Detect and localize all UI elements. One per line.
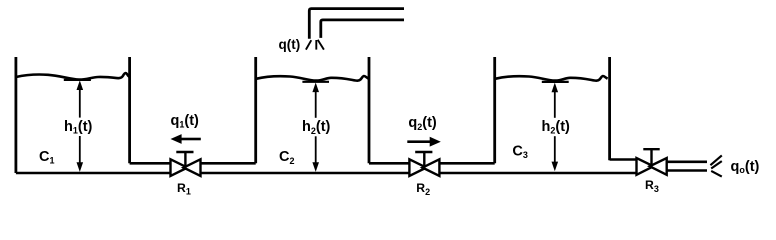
svg-text:q2(t): q2(t) — [408, 115, 437, 132]
svg-text:h2(t): h2(t) — [302, 119, 331, 136]
label R2 — [416, 181, 430, 197]
outlet pipe lower line — [667, 169, 707, 172]
label R3 — [645, 178, 659, 194]
h3 level arrow (double-headed) — [554, 91, 556, 164]
h1 level arrow (double-headed) — [79, 89, 81, 165]
level dash tank1 — [64, 79, 91, 81]
water surface tank2 — [256, 76, 369, 81]
tank C1 right wall — [128, 57, 131, 163]
valve R1 right triangle — [184, 159, 201, 176]
label q2(t) — [408, 115, 437, 132]
valve R3 right triangle — [650, 158, 667, 175]
channel upper line tank1-valve R1 — [130, 162, 171, 165]
inflow pipe inner wall — [321, 20, 404, 38]
svg-text:qo(t): qo(t) — [731, 159, 760, 175]
label C1 — [39, 149, 55, 166]
valve R1 top bar — [176, 151, 193, 153]
valve R2 right triangle — [423, 159, 440, 176]
channel upper line valve R2-tank3 — [439, 162, 494, 165]
channel upper line valve R1-tank2 — [201, 162, 256, 165]
water surface tank1 — [16, 73, 129, 80]
label h2(t) tank3 — [542, 119, 571, 136]
outlet pipe upper line — [667, 161, 707, 164]
label R1 — [177, 181, 191, 197]
label q1(t) — [171, 113, 200, 130]
valve R2 stem — [423, 152, 425, 168]
tank C3 left wall — [493, 57, 496, 163]
label h2(t) tank2 — [302, 119, 331, 136]
svg-text:h2(t): h2(t) — [542, 119, 571, 136]
valve R2 left triangle — [409, 159, 426, 176]
water surface tank3 — [495, 76, 608, 81]
valve R1 stem — [184, 152, 186, 168]
level dash tank2 — [302, 81, 329, 83]
label q(t) — [279, 37, 301, 52]
svg-text:q1(t): q1(t) — [171, 113, 200, 130]
outlet flow spray marks — [710, 155, 721, 176]
svg-text:h1(t): h1(t) — [64, 119, 93, 136]
tank C2 left wall — [254, 57, 257, 163]
valve R3 top bar — [643, 148, 659, 150]
bottom pipe line — [16, 172, 637, 175]
inlet flow spray marks — [306, 40, 324, 50]
label h1(t) — [64, 119, 93, 136]
channel upper line tank3-valve R3 — [610, 158, 637, 161]
h2 level arrow (double-headed) — [315, 91, 317, 165]
valve R3 left triangle — [637, 158, 654, 175]
tank C2 right wall — [368, 57, 371, 163]
label C3 — [512, 143, 528, 160]
channel upper line tank2-valve R2 — [369, 162, 409, 165]
tank C1 left wall — [14, 57, 17, 173]
valve R1 left triangle — [171, 159, 188, 176]
tank C3 right wall — [608, 57, 611, 160]
label qo(t) — [731, 159, 760, 175]
q1 flow arrow (left) — [171, 134, 201, 144]
inflow pipe outer wall — [309, 9, 404, 39]
valve R3 stem — [650, 149, 652, 166]
svg-text:q(t): q(t) — [279, 37, 301, 52]
level dash tank3 — [542, 81, 569, 83]
q2 flow arrow (right) — [407, 137, 441, 147]
valve R2 top bar — [415, 151, 432, 153]
label C2 — [279, 149, 295, 166]
